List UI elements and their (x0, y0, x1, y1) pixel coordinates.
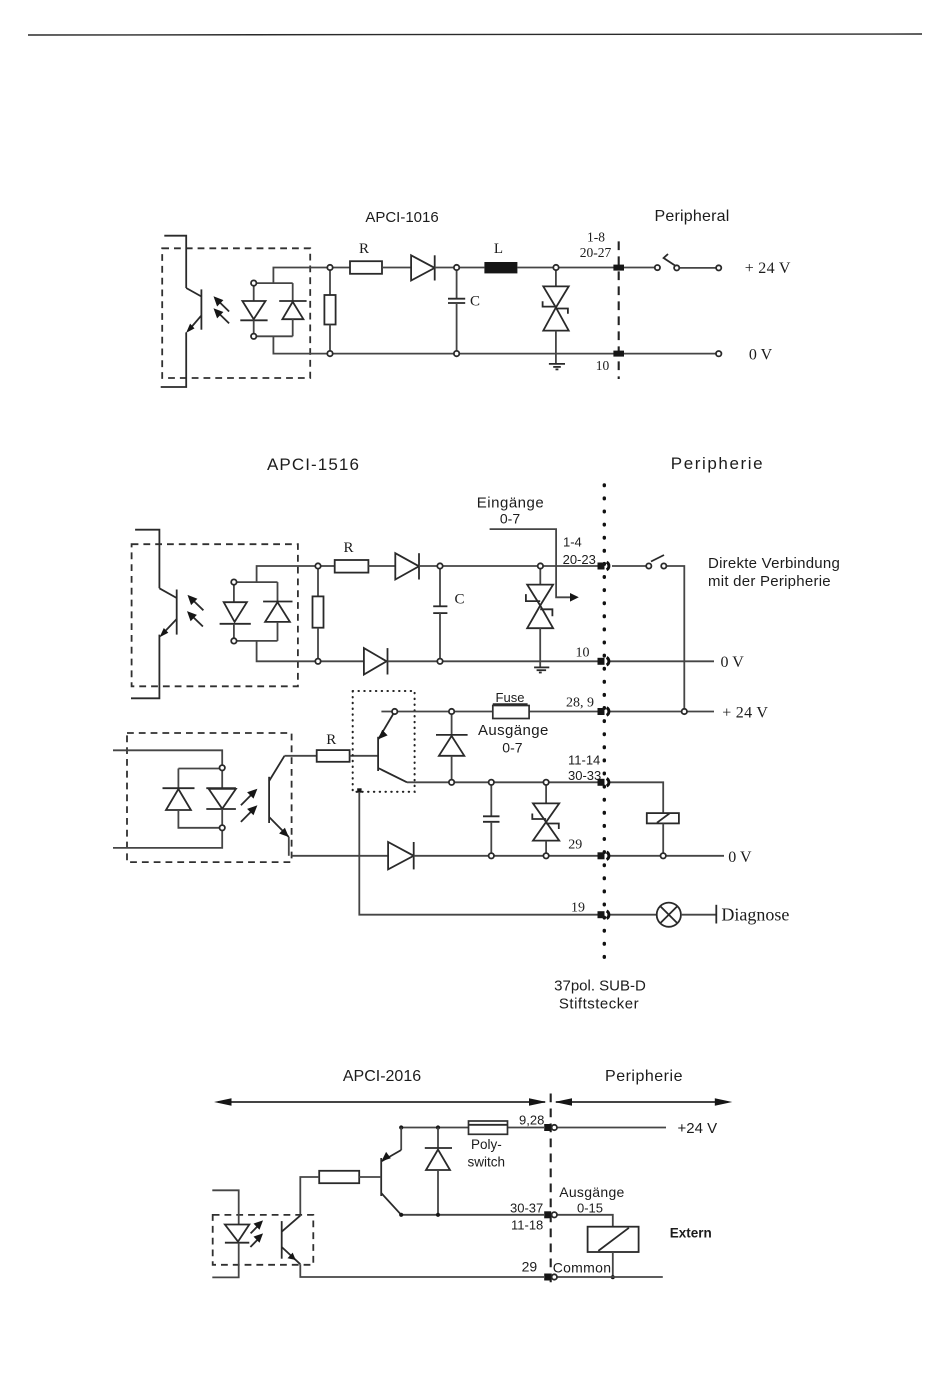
svg-text:mit der Peripherie: mit der Peripherie (708, 573, 831, 590)
svg-text:11-14: 11-14 (568, 753, 600, 768)
svg-text:APCI-1516: APCI-1516 (267, 455, 360, 474)
svg-text:20-23: 20-23 (563, 552, 596, 567)
svg-text:Extern: Extern (670, 1226, 712, 1241)
svg-text:+ 24 V: + 24 V (745, 260, 791, 277)
svg-text:Diagnose: Diagnose (721, 905, 789, 925)
svg-text:30-33: 30-33 (568, 768, 601, 783)
svg-text:11-18: 11-18 (511, 1218, 543, 1233)
svg-text:L: L (494, 241, 503, 257)
svg-text:Stiftstecker: Stiftstecker (559, 996, 639, 1013)
svg-text:Direkte Verbindung: Direkte Verbindung (708, 555, 840, 572)
svg-text:0 V: 0 V (728, 849, 752, 866)
svg-text:APCI-1016: APCI-1016 (365, 209, 438, 226)
svg-text:0-7: 0-7 (502, 740, 522, 756)
svg-text:0-15: 0-15 (577, 1201, 603, 1216)
svg-text:10: 10 (576, 646, 590, 661)
svg-text:Poly-: Poly- (471, 1137, 502, 1152)
svg-text:Peripherie: Peripherie (671, 454, 765, 473)
svg-text:0 V: 0 V (721, 654, 745, 671)
svg-text:R: R (343, 540, 353, 556)
svg-text:1-4: 1-4 (563, 535, 582, 550)
svg-text:0-7: 0-7 (500, 511, 520, 527)
svg-text:switch: switch (468, 1155, 506, 1170)
svg-text:28, 9: 28, 9 (566, 696, 594, 711)
svg-text:+24 V: +24 V (678, 1120, 718, 1137)
svg-text:19: 19 (571, 901, 585, 916)
svg-text:+ 24 V: + 24 V (722, 704, 768, 721)
svg-text:Ausgänge: Ausgänge (478, 722, 549, 739)
svg-text:29: 29 (522, 1259, 538, 1275)
svg-text:0 V: 0 V (749, 346, 773, 363)
svg-text:Fuse: Fuse (496, 690, 525, 705)
svg-text:Common: Common (553, 1260, 612, 1276)
svg-text:Ausgänge: Ausgänge (559, 1184, 624, 1200)
svg-text:37pol. SUB-D: 37pol. SUB-D (554, 978, 646, 995)
svg-text:Peripherie: Peripherie (605, 1068, 683, 1085)
svg-text:30-37: 30-37 (510, 1201, 543, 1216)
svg-text:R: R (326, 732, 336, 748)
svg-text:9,28: 9,28 (519, 1113, 544, 1128)
svg-text:Eingänge: Eingänge (477, 495, 544, 512)
svg-text:10: 10 (596, 358, 610, 373)
svg-text:Peripheral: Peripheral (655, 208, 730, 225)
svg-text:C: C (470, 294, 480, 310)
svg-text:1-8: 1-8 (587, 230, 605, 245)
svg-text:20-27: 20-27 (580, 245, 612, 260)
svg-text:APCI-2016: APCI-2016 (343, 1068, 421, 1085)
svg-text:R: R (359, 241, 369, 257)
svg-text:C: C (454, 592, 464, 608)
svg-text:29: 29 (568, 838, 582, 853)
